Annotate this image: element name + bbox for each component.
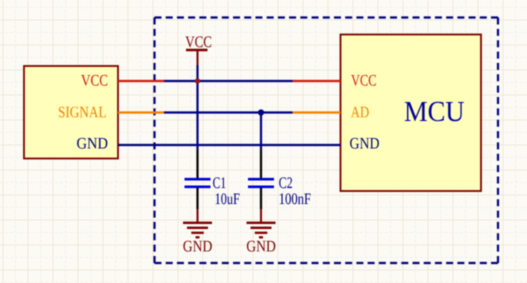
C1 designator: [213, 177, 225, 188]
pin label VCC (MCU): [351, 75, 376, 86]
wire GND net: [118, 144, 341, 146]
power port VCC: [185, 36, 211, 65]
wire VCC vertical drop: [196, 65, 198, 150]
C2 value 100nF: [280, 193, 311, 204]
capacitor C2: [248, 150, 274, 209]
wire SIGNAL net: [164, 111, 293, 113]
pin label GND (left box): [77, 138, 107, 149]
C2 designator: [279, 177, 292, 188]
MCU box: [341, 35, 482, 192]
pin label SIGNAL (left box): [59, 107, 106, 118]
MCU title: [405, 102, 464, 122]
wire AD branch to C2: [260, 113, 262, 151]
pin label GND (MCU): [350, 138, 379, 149]
pin stub VCC left: [118, 80, 164, 82]
C1 value 10uF: [216, 193, 240, 204]
ground symbol GND (C1): [183, 209, 212, 252]
capacitor C1: [185, 150, 211, 209]
wire VCC net: [164, 80, 293, 82]
pin label AD (MCU): [351, 107, 369, 118]
ground symbol GND (C2): [247, 209, 276, 252]
dashed region border: [155, 18, 499, 264]
pin stub SIGNAL left: [118, 111, 164, 113]
pin stub AD MCU: [293, 111, 341, 113]
left component box: [24, 66, 118, 159]
junction AD: [258, 109, 264, 115]
pin label VCC (left box): [81, 75, 107, 86]
junction VCC: [195, 78, 200, 83]
pin stub VCC MCU: [293, 80, 341, 82]
